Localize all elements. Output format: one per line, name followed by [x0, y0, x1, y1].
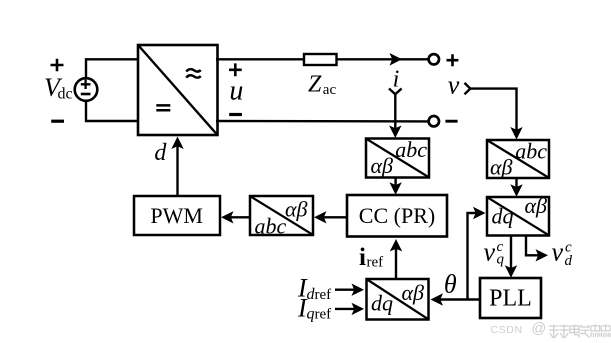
wire iref: dq block up to CC	[395, 242, 397, 279]
svg-text:αβ: αβ	[285, 197, 308, 222]
label + at terminal	[447, 54, 459, 66]
wire d: PWM to inverter	[176, 140, 178, 197]
svg-text:dc: dc	[58, 86, 73, 103]
svg-text:PLL: PLL	[489, 286, 532, 312]
svg-text:θ: θ	[444, 270, 457, 299]
node - terminal	[429, 116, 439, 126]
svg-text:dq: dq	[371, 291, 393, 316]
current probe tap	[389, 89, 402, 95]
svg-text:αβ: αβ	[524, 193, 547, 218]
svg-text:CC (PR): CC (PR)	[359, 203, 435, 228]
svg-text:dq: dq	[492, 204, 514, 229]
svg-text:ref: ref	[315, 307, 332, 323]
voltage source Vdc circle	[75, 78, 98, 101]
svg-text:v: v	[448, 71, 460, 100]
wire mid block to PWM	[224, 216, 250, 218]
inverter diagonal	[139, 46, 218, 135]
block PLL	[480, 278, 541, 318]
svg-text:abc: abc	[515, 139, 547, 164]
label - at source bottom	[51, 120, 64, 123]
svg-text:ref: ref	[367, 255, 384, 271]
svg-text:ac: ac	[323, 82, 337, 98]
svg-text:q: q	[307, 306, 315, 323]
svg-text:i: i	[393, 67, 400, 93]
wire v probe to right abc block	[470, 89, 517, 136]
svg-text:CSDN: CSDN	[491, 324, 523, 336]
svg-text:ref: ref	[315, 287, 332, 303]
transform block alphabeta-to-dq (voltage)	[487, 197, 549, 236]
svg-text:PWM: PWM	[150, 203, 203, 228]
wire inverter bottom to - terminal	[216, 120, 429, 123]
wire current abc block to CC	[394, 178, 396, 192]
wire inverter to Zac	[216, 58, 305, 60]
wire CC to mid alphabeta-abc block	[317, 216, 347, 218]
transform block abc-to-alphabeta (current)	[366, 139, 429, 178]
resistor Zac	[304, 54, 337, 65]
node + terminal	[429, 54, 439, 64]
svg-text:Z: Z	[308, 72, 322, 98]
label - of u	[229, 113, 242, 116]
svg-text:v: v	[552, 238, 564, 267]
wire voltage abc block to dq block	[515, 178, 517, 194]
watermark CJK glyph 6	[601, 324, 610, 337]
wire source bottom to inverter	[86, 101, 139, 122]
svg-text:q: q	[497, 252, 505, 268]
svg-text:i: i	[359, 244, 366, 271]
voltage probe tap	[465, 83, 471, 94]
transform block alphabeta-to-abc (mid)	[250, 196, 313, 235]
svg-text:abc: abc	[255, 214, 287, 239]
inverter U1 box	[138, 45, 218, 135]
label - at terminal	[445, 120, 457, 123]
wire source top to inverter	[86, 59, 139, 78]
svg-text:d: d	[565, 253, 573, 269]
svg-text:αβ: αβ	[401, 280, 424, 305]
inverter AC symbol	[186, 69, 200, 78]
transform block dq-to-alphabeta (reference)	[367, 279, 429, 320]
wire i probe down to abc block	[394, 94, 396, 136]
block PWM	[134, 196, 220, 235]
wire theta: PLL to dq reference block	[434, 298, 481, 300]
label + of u	[229, 63, 242, 76]
wire Zac to + terminal with current arrow	[337, 58, 429, 60]
watermark CJK glyph 2	[559, 325, 569, 339]
watermark CJK glyph 5	[591, 324, 600, 337]
watermark CJK glyph 4	[580, 325, 589, 338]
wire vq: dq block down to PLL	[510, 236, 512, 275]
svg-text:αβ: αβ	[490, 155, 513, 180]
arrow Iqref into dq block	[335, 308, 360, 310]
inverter DC symbol	[156, 105, 170, 110]
watermark CJK glyph 1	[549, 324, 610, 338]
svg-text:αβ: αβ	[371, 153, 394, 178]
transform block abc-to-alphabeta (voltage)	[487, 140, 549, 178]
svg-text:v: v	[484, 238, 496, 267]
wire vd out	[526, 236, 540, 256]
svg-text:abc: abc	[395, 137, 427, 162]
svg-text:@: @	[532, 321, 547, 337]
arrow Idref into dq block	[335, 289, 360, 291]
label + at source top	[51, 59, 64, 72]
watermark CJK glyph 3	[570, 325, 579, 338]
minus sign inside source	[81, 93, 91, 96]
svg-text:d: d	[154, 140, 167, 166]
block CC (PR)	[347, 195, 447, 237]
svg-text:u: u	[229, 75, 243, 106]
plus sign inside source	[81, 80, 91, 89]
wire theta branch up into voltage dq block	[468, 213, 483, 300]
